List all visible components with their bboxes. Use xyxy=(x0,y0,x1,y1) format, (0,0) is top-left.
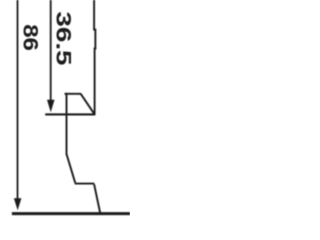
profile chamfer diagonal xyxy=(81,94,95,114)
profile left vertical (pole) xyxy=(66,93,68,155)
arrowhead of dimension 86 xyxy=(14,198,22,210)
lower diagonal B xyxy=(94,184,100,213)
baseline (thick ground line) xyxy=(12,212,130,215)
ledge horizontal xyxy=(75,183,95,185)
step line (horizontal, pointed to by 36.5) xyxy=(45,113,95,115)
lower diagonal A xyxy=(67,154,76,183)
svg-text:36.5: 36.5 xyxy=(51,11,74,65)
profile right edge (vertical with small jogs) xyxy=(94,0,95,115)
dimension line 86 (vertical extension) xyxy=(17,0,19,199)
profile notch top edge xyxy=(65,93,82,95)
dimension line 36.5 (vertical extension) xyxy=(50,0,52,100)
svg-text:86: 86 xyxy=(19,24,44,51)
arrowhead of dimension 36.5 xyxy=(47,100,55,112)
